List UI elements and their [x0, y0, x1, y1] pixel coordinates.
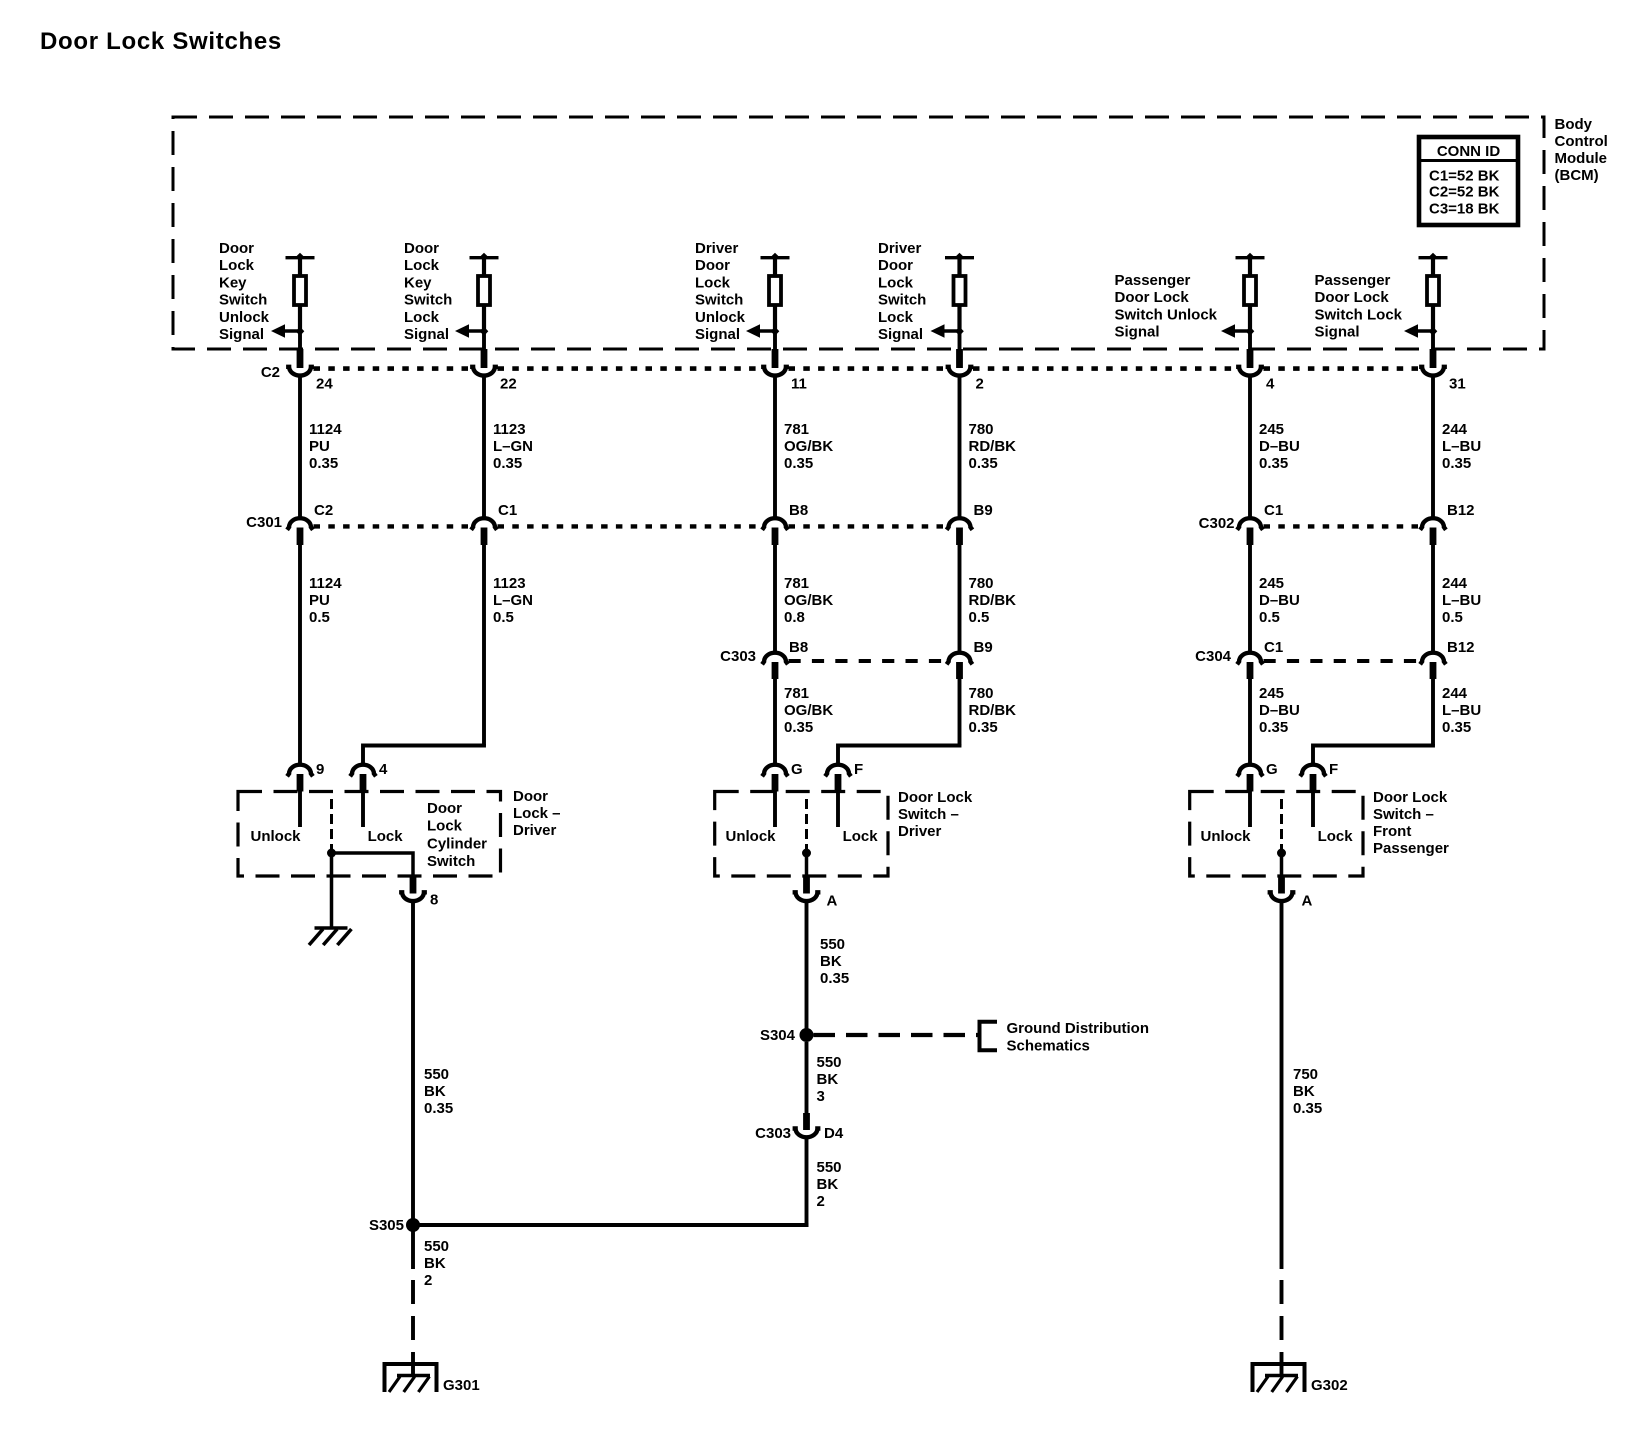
wire 245 D–BU 0.35 from BCM to C301/C302 [1250, 377, 1300, 517]
svg-text:780: 780 [969, 575, 994, 592]
output connector cup [1268, 892, 1296, 901]
svg-text:BK: BK [817, 1176, 839, 1193]
BCM internal switch-signal source: Driver Door Lock Switch Unlock Signal [695, 240, 790, 350]
svg-text:Switch Lock: Switch Lock [1315, 306, 1403, 323]
switch pin stub 4 [360, 774, 367, 792]
BCM pin stub, pin 22 [481, 349, 488, 368]
svg-text:Passenger: Passenger [1315, 272, 1391, 289]
svg-text:1124: 1124 [309, 575, 342, 592]
svg-text:BK: BK [820, 953, 842, 970]
switch dashed box: Door Lock Cylinder Switch [238, 792, 501, 877]
svg-text:750: 750 [1293, 1066, 1318, 1083]
svg-text:L–BU: L–BU [1442, 438, 1481, 455]
wire 550 BK 0.35 from pin A to S304 [807, 903, 850, 1035]
switch name: Door Lock - Driver [513, 788, 561, 839]
switch pin stub G [772, 774, 779, 792]
svg-text:Front: Front [1373, 823, 1411, 840]
unlock contact wire [773, 792, 777, 828]
svg-text:G: G [791, 761, 803, 778]
BCM internal switch-signal source: Door Lock Key Switch Unlock Signal [219, 240, 315, 350]
output connector cup [399, 892, 427, 901]
output pin stub [1278, 877, 1285, 894]
wire 550 BK 3 from S304 to C303 D4 [807, 1042, 842, 1113]
switch dashed box: Door Lock Switch - Driver [715, 792, 888, 877]
svg-text:C2=52 BK: C2=52 BK [1429, 184, 1500, 201]
C301/C302 connector dome, pin C1 [1237, 518, 1263, 530]
svg-text:Door: Door [878, 257, 913, 274]
svg-text:A: A [827, 893, 838, 910]
unlock contact wire [298, 792, 302, 828]
wire from wiper to output pin A [805, 853, 809, 877]
svg-text:550: 550 [817, 1054, 842, 1071]
svg-text:Switch: Switch [427, 853, 475, 870]
C301/C302 pin stub B9 [956, 528, 963, 546]
C303/C304 connector dome, pin B9 [947, 653, 973, 665]
svg-text:244: 244 [1442, 575, 1468, 592]
C303/C304 connector dome, pin B12 [1420, 653, 1446, 665]
wire 781 OG/BK 0.35 below C303/C304 [775, 679, 833, 764]
BCM connector cup, pin 2 [946, 367, 974, 376]
lock contact wire [836, 792, 840, 828]
wiper junction dot [802, 849, 811, 858]
C301/C302 pin stub C1 [1247, 528, 1254, 546]
svg-text:0.5: 0.5 [493, 609, 514, 626]
wire 1123 L–GN 0.35 from BCM to C301/C302 [484, 377, 533, 517]
switch name: Door Lock Switch - Front Passenger [1373, 789, 1449, 857]
svg-text:L–BU: L–BU [1442, 702, 1481, 719]
BCM pin stub, pin 2 [956, 349, 963, 368]
svg-text:G302: G302 [1311, 1377, 1348, 1394]
svg-text:BK: BK [817, 1071, 839, 1088]
svg-text:550: 550 [424, 1238, 449, 1255]
wire 750 BK 0.35 from pin A to G302 [1282, 903, 1323, 1375]
svg-text:0.35: 0.35 [820, 970, 849, 987]
BCM pin stub, pin 11 [772, 349, 779, 368]
svg-text:D4: D4 [824, 1125, 844, 1142]
svg-text:0.8: 0.8 [784, 609, 805, 626]
svg-text:2: 2 [817, 1193, 825, 1210]
C301/C302 pin stub C1 [481, 528, 488, 546]
svg-text:0.35: 0.35 [1442, 719, 1471, 736]
wire 1124 PU 0.35 from BCM to C301/C302 [300, 377, 342, 517]
svg-text:Signal: Signal [695, 326, 740, 343]
svg-text:D–BU: D–BU [1259, 592, 1300, 609]
BCM internal switch-signal source: Passenger Door Lock Switch Lock Signal [1315, 253, 1448, 350]
svg-text:24: 24 [316, 376, 333, 393]
svg-text:0.5: 0.5 [1442, 609, 1463, 626]
svg-text:781: 781 [784, 421, 809, 438]
svg-text:RD/BK: RD/BK [969, 702, 1017, 719]
svg-text:Driver: Driver [898, 823, 942, 840]
svg-text:0.35: 0.35 [1259, 719, 1288, 736]
svg-text:0.5: 0.5 [969, 609, 990, 626]
svg-text:Door Lock: Door Lock [1115, 289, 1190, 306]
switch name: Door Lock Switch - Driver [898, 789, 973, 840]
BCM internal switch-signal source: Door Lock Key Switch Lock Signal [404, 240, 499, 350]
svg-text:C1: C1 [1264, 502, 1283, 519]
svg-text:3: 3 [817, 1088, 825, 1105]
svg-text:Lock: Lock [878, 309, 914, 326]
svg-text:0.35: 0.35 [1259, 455, 1288, 472]
wire 244 L–BU 0.5 below C301/C302 [1433, 545, 1481, 651]
svg-text:4: 4 [379, 761, 388, 778]
wire 780 RD/BK 0.5 below C301/C302 [960, 545, 1017, 651]
C303 pin D4 stub [803, 1113, 810, 1130]
svg-text:C2: C2 [314, 502, 333, 519]
C301/C302 connector dome, pin B8 [762, 518, 788, 530]
svg-text:Body: Body [1555, 116, 1593, 133]
svg-text:Lock: Lock [219, 257, 255, 274]
switch connector dome, pin 4 [350, 765, 376, 777]
CONN ID table [1419, 137, 1518, 225]
svg-text:Lock: Lock [1318, 828, 1354, 845]
BCM name label [1555, 116, 1608, 184]
svg-text:Signal: Signal [219, 326, 264, 343]
svg-text:31: 31 [1449, 376, 1466, 393]
wire joining D4 branch to S305 [413, 1223, 809, 1227]
unlock contact wire [1248, 792, 1252, 828]
svg-text:0.5: 0.5 [1259, 609, 1280, 626]
svg-text:550: 550 [817, 1159, 842, 1176]
svg-text:B8: B8 [789, 502, 808, 519]
wire jog from x=484 to lock pin at x=363 [363, 744, 484, 764]
svg-text:11: 11 [791, 376, 807, 393]
svg-text:Lock: Lock [695, 274, 731, 291]
svg-text:C303: C303 [720, 648, 756, 665]
BCM connector cup, pin 24 [286, 367, 314, 376]
svg-text:Lock: Lock [878, 274, 914, 291]
BCM pin stub, pin 4 [1247, 349, 1254, 368]
Body Control Module (BCM) dashed outline [173, 117, 1544, 349]
svg-text:B12: B12 [1447, 639, 1475, 656]
wire from wiper to output pin 8 [332, 853, 414, 877]
off-page reference bracket [980, 1022, 998, 1050]
svg-text:Door: Door [404, 240, 439, 257]
svg-text:C1=52 BK: C1=52 BK [1429, 168, 1500, 185]
svg-text:CONN ID: CONN ID [1437, 143, 1501, 160]
wire 244 L–BU 0.35 below C303/C304 [1433, 679, 1481, 746]
switch wiper dashed wire [805, 799, 808, 853]
svg-text:Cylinder: Cylinder [427, 835, 487, 852]
wire 780 RD/BK 0.35 from BCM to C301/C302 [960, 377, 1017, 517]
svg-text:0.35: 0.35 [1442, 455, 1471, 472]
BCM pin stub, pin 31 [1430, 349, 1437, 368]
svg-text:Switch –: Switch – [1373, 806, 1434, 823]
svg-text:0.35: 0.35 [969, 455, 998, 472]
BCM connector cup, pin 4 [1236, 367, 1264, 376]
svg-text:B12: B12 [1447, 502, 1475, 519]
switch name: Door Lock Cylinder Switch (inside box) [427, 800, 487, 870]
C301/C302 pin stub C2 [297, 528, 304, 546]
svg-text:D–BU: D–BU [1259, 702, 1300, 719]
splice S305 [406, 1218, 420, 1232]
BCM connector dotted line (connector C2/C1 face) [314, 366, 1420, 371]
wire 781 OG/BK 0.35 from BCM to C301/C302 [775, 377, 833, 517]
switch connector dome, pin G [762, 765, 788, 777]
svg-text:C301: C301 [246, 514, 282, 531]
svg-text:244: 244 [1442, 685, 1468, 702]
C303/C304 connector dome, pin B8 [762, 653, 788, 665]
svg-text:Door Lock: Door Lock [1373, 789, 1448, 806]
svg-text:0.35: 0.35 [309, 455, 338, 472]
svg-text:0.35: 0.35 [424, 1100, 453, 1117]
wire from wiper to output pin A [1280, 853, 1284, 877]
switch pin stub G [1247, 774, 1254, 792]
svg-text:Module: Module [1555, 150, 1608, 167]
svg-text:1123: 1123 [493, 575, 526, 592]
svg-text:L–GN: L–GN [493, 438, 533, 455]
svg-text:780: 780 [969, 685, 994, 702]
svg-text:RD/BK: RD/BK [969, 438, 1017, 455]
switch pin stub F [1310, 774, 1317, 792]
svg-text:Signal: Signal [1115, 324, 1160, 341]
BCM connector cup, pin 31 [1419, 367, 1447, 376]
svg-text:Door: Door [427, 800, 462, 817]
C301/C302 connector dome, pin C1 [471, 518, 497, 530]
svg-text:Door: Door [695, 257, 730, 274]
C301/C302 connector dome, pin B9 [947, 518, 973, 530]
BCM internal switch-signal source: Passenger Door Lock Switch Unlock Signal [1115, 253, 1265, 350]
svg-text:245: 245 [1259, 575, 1284, 592]
svg-text:Switch: Switch [404, 292, 452, 309]
BCM internal switch-signal source: Driver Door Lock Switch Lock Signal [878, 240, 974, 350]
wiper junction dot [1277, 849, 1286, 858]
svg-text:Door Lock Switches: Door Lock Switches [40, 28, 282, 55]
svg-text:F: F [854, 761, 863, 778]
svg-text:2: 2 [424, 1272, 432, 1289]
lock contact wire [361, 792, 365, 828]
svg-text:0.35: 0.35 [784, 719, 813, 736]
wire jog from x=1433 to lock pin at x=1313 [1313, 744, 1433, 764]
svg-text:Switch: Switch [878, 292, 926, 309]
svg-text:245: 245 [1259, 421, 1284, 438]
output pin stub [803, 877, 810, 894]
ground G301 [385, 1364, 480, 1394]
svg-text:S305: S305 [369, 1217, 404, 1234]
svg-text:244: 244 [1442, 421, 1468, 438]
switch dashed box: Door Lock Switch - Front Passenger [1190, 792, 1363, 877]
svg-text:PU: PU [309, 592, 330, 609]
svg-text:B8: B8 [789, 639, 808, 656]
svg-text:Unlock: Unlock [695, 309, 746, 326]
svg-text:1124: 1124 [309, 421, 342, 438]
svg-text:Driver: Driver [878, 240, 922, 257]
in-line connector C302 dotted line [1264, 524, 1420, 528]
connector C303 cup, pin D4 [793, 1129, 821, 1138]
wire 244 L–BU 0.35 from BCM to C301/C302 [1433, 377, 1481, 517]
C301/C302 pin stub B12 [1430, 528, 1437, 546]
wire 245 D–BU 0.5 below C301/C302 [1250, 545, 1300, 651]
svg-text:0.35: 0.35 [969, 719, 998, 736]
svg-text:Passenger: Passenger [1373, 840, 1449, 857]
reference label Ground Distribution Schematics [1007, 1020, 1149, 1055]
svg-text:F: F [1329, 761, 1338, 778]
C301/C302 connector dome, pin B12 [1420, 518, 1446, 530]
svg-text:Switch: Switch [695, 292, 743, 309]
svg-text:Door Lock: Door Lock [1315, 289, 1390, 306]
wire 550 BK 2 from D4 to S305 [807, 1139, 842, 1225]
C303/C304 pin stub C1 [1247, 662, 1254, 679]
ground G302 [1253, 1364, 1348, 1394]
svg-text:Key: Key [219, 274, 247, 291]
svg-text:Passenger: Passenger [1115, 272, 1191, 289]
svg-text:B9: B9 [974, 639, 993, 656]
switch connector dome, pin 9 [287, 765, 313, 777]
svg-text:Schematics: Schematics [1007, 1038, 1090, 1055]
svg-text:(BCM): (BCM) [1555, 167, 1599, 184]
C303/C304 pin stub B8 [772, 662, 779, 679]
svg-text:RD/BK: RD/BK [969, 592, 1017, 609]
svg-text:550: 550 [424, 1066, 449, 1083]
svg-text:Ground Distribution: Ground Distribution [1007, 1020, 1149, 1037]
wire 550 BK 0.35 from pin 8 to S305 [413, 903, 453, 1225]
svg-text:PU: PU [309, 438, 330, 455]
svg-text:8: 8 [430, 892, 438, 909]
svg-text:BK: BK [1293, 1083, 1315, 1100]
output pin stub [410, 877, 417, 894]
svg-text:C302: C302 [1199, 515, 1235, 532]
in-line connector C301 dotted line [314, 524, 947, 528]
switch connector dome, pin F [1300, 765, 1326, 777]
svg-text:9: 9 [316, 761, 324, 778]
svg-text:C304: C304 [1195, 648, 1232, 665]
svg-text:780: 780 [969, 421, 994, 438]
svg-text:Switch: Switch [219, 292, 267, 309]
lock contact wire [1311, 792, 1315, 828]
splice S304 [800, 1028, 814, 1042]
svg-text:Lock: Lock [368, 828, 404, 845]
wire 781 OG/BK 0.8 below C301/C302 [775, 545, 833, 651]
switch wiper dashed wire [1280, 799, 1283, 853]
svg-text:G: G [1266, 761, 1278, 778]
svg-text:Switch –: Switch – [898, 806, 959, 823]
switch connector dome, pin G [1237, 765, 1263, 777]
svg-text:Signal: Signal [404, 326, 449, 343]
in-line connector C304 dashed line [1264, 659, 1420, 663]
wiper junction dot [327, 849, 336, 858]
svg-text:Lock: Lock [404, 309, 440, 326]
svg-text:Door Lock: Door Lock [898, 789, 973, 806]
svg-text:C303: C303 [755, 1125, 791, 1142]
switch wiper dashed wire [330, 799, 333, 853]
wire from wiper to internal ground [330, 853, 334, 927]
svg-text:Unlock: Unlock [219, 309, 270, 326]
svg-text:S304: S304 [760, 1027, 796, 1044]
svg-text:OG/BK: OG/BK [784, 702, 833, 719]
svg-text:Unlock: Unlock [726, 828, 777, 845]
svg-text:C3=18 BK: C3=18 BK [1429, 201, 1500, 218]
svg-text:0.35: 0.35 [1293, 1100, 1322, 1117]
wire 550 BK 2 from S305 to G301 [413, 1225, 449, 1375]
svg-text:Door: Door [513, 788, 548, 805]
svg-text:Door: Door [219, 240, 254, 257]
wire 1124 PU 0.5 below C301/C302 [300, 545, 342, 764]
svg-text:0.35: 0.35 [784, 455, 813, 472]
svg-text:Lock: Lock [404, 257, 440, 274]
svg-text:C1: C1 [498, 502, 517, 519]
svg-text:Driver: Driver [695, 240, 739, 257]
wire 1123 L–GN 0.5 below C301/C302 [484, 545, 533, 746]
svg-text:C2: C2 [261, 364, 280, 381]
C301/C302 connector dome, pin C2 [287, 518, 313, 530]
BCM connector cup, pin 11 [761, 367, 789, 376]
svg-text:Driver: Driver [513, 822, 557, 839]
svg-text:Control: Control [1555, 133, 1608, 150]
output connector cup [793, 892, 821, 901]
switch connector dome, pin F [825, 765, 851, 777]
svg-text:781: 781 [784, 575, 809, 592]
svg-text:A: A [1302, 893, 1313, 910]
svg-text:BK: BK [424, 1255, 446, 1272]
C303/C304 pin stub B12 [1430, 662, 1437, 679]
svg-text:OG/BK: OG/BK [784, 592, 833, 609]
wire 780 RD/BK 0.35 below C303/C304 [960, 679, 1017, 746]
svg-text:245: 245 [1259, 685, 1284, 702]
svg-text:Signal: Signal [878, 326, 923, 343]
internal chassis ground symbol [309, 928, 351, 945]
svg-text:D–BU: D–BU [1259, 438, 1300, 455]
svg-text:4: 4 [1266, 376, 1275, 393]
switch pin stub 9 [297, 774, 304, 792]
svg-text:B9: B9 [974, 502, 993, 519]
svg-text:L–GN: L–GN [493, 592, 533, 609]
C303/C304 pin stub B9 [956, 662, 963, 679]
svg-text:Lock: Lock [427, 818, 463, 835]
svg-text:2: 2 [976, 376, 984, 393]
svg-text:Unlock: Unlock [251, 828, 302, 845]
in-line connector C303 dashed line [789, 659, 947, 663]
svg-text:Switch Unlock: Switch Unlock [1115, 306, 1218, 323]
BCM connector cup, pin 22 [470, 367, 498, 376]
wire 245 D–BU 0.35 below C303/C304 [1250, 679, 1300, 764]
switch pin stub F [835, 774, 842, 792]
svg-text:Signal: Signal [1315, 324, 1360, 341]
svg-text:781: 781 [784, 685, 809, 702]
svg-text:OG/BK: OG/BK [784, 438, 833, 455]
svg-text:Lock –: Lock – [513, 805, 561, 822]
svg-text:550: 550 [820, 936, 845, 953]
wire jog from x=959.5 to lock pin at x=838 [838, 744, 960, 764]
C303/C304 connector dome, pin C1 [1237, 653, 1263, 665]
svg-text:Unlock: Unlock [1201, 828, 1252, 845]
svg-text:BK: BK [424, 1083, 446, 1100]
svg-text:1123: 1123 [493, 421, 526, 438]
svg-text:Lock: Lock [843, 828, 879, 845]
svg-text:0.35: 0.35 [493, 455, 522, 472]
svg-text:L–BU: L–BU [1442, 592, 1481, 609]
svg-text:22: 22 [500, 376, 517, 393]
BCM pin stub, pin 24 [297, 349, 304, 368]
svg-text:0.5: 0.5 [309, 609, 330, 626]
svg-text:G301: G301 [443, 1377, 480, 1394]
svg-text:C1: C1 [1264, 639, 1283, 656]
dashed reference line to Ground Distribution Schematics [814, 1033, 982, 1037]
svg-text:Key: Key [404, 274, 432, 291]
C301/C302 pin stub B8 [772, 528, 779, 546]
